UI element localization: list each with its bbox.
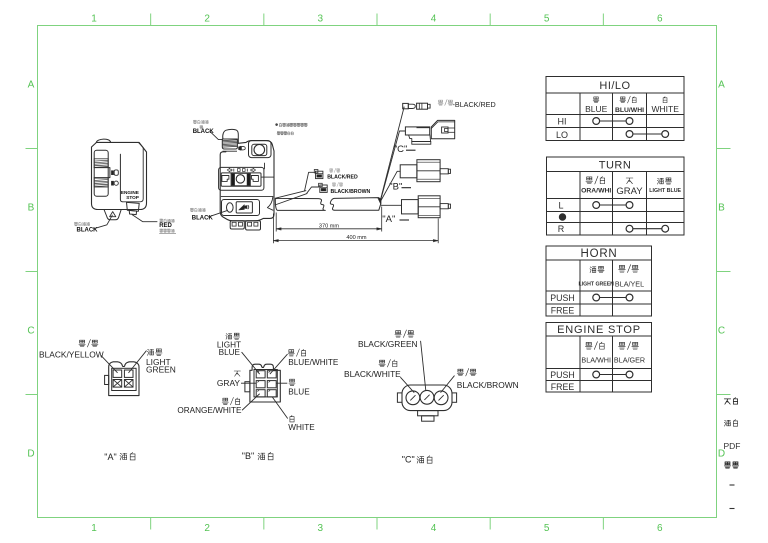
bullet connector BLACK/RED (mid)	[314, 170, 323, 179]
leader to C pin BLACK/GREEN	[421, 341, 426, 390]
label BLACK/BROWN	[457, 368, 519, 390]
detail view A connector housing	[105, 362, 139, 396]
wire to connector C	[381, 131, 406, 200]
svg-text:LIGHT GREEN: LIGHT GREEN	[578, 282, 614, 288]
svg-text:BLACK/WHITE: BLACK/WHITE	[344, 369, 401, 379]
svg-text:6: 6	[657, 523, 663, 534]
svg-text:WHITE: WHITE	[288, 423, 315, 432]
svg-text:4: 4	[431, 523, 437, 534]
label GRAY	[217, 371, 241, 388]
svg-text:TURN: TURN	[599, 160, 632, 172]
label BLACK/GREEN	[358, 330, 418, 349]
svg-text:"C": "C"	[394, 144, 408, 155]
caption detail B	[242, 451, 273, 461]
detail C pin BLACK/BROWN	[434, 391, 448, 405]
detail view C connector housing	[397, 385, 456, 421]
svg-text:PUSH: PUSH	[550, 370, 574, 380]
bullet connector BLACK/BROWN (mid)	[319, 183, 328, 192]
label "A"	[382, 214, 409, 225]
connector B (cylindrical)	[400, 160, 450, 182]
SW2 hi/lo lever with ribbed grip	[222, 129, 238, 151]
SW1 ENGINE STOP label text	[121, 190, 139, 200]
svg-text:HI/LO: HI/LO	[599, 80, 630, 92]
SW2 black wire label (bottom)	[190, 208, 213, 221]
svg-text:R: R	[558, 224, 565, 234]
svg-text:BLUE: BLUE	[288, 387, 310, 396]
detail A pin 2 (LIGHT GREEN)	[124, 370, 133, 377]
leader to B pin WHITE	[272, 397, 287, 418]
SW1 red wire label	[159, 219, 176, 234]
SW1 connector tab (red wire)	[127, 202, 140, 214]
svg-text:3: 3	[318, 523, 324, 534]
svg-text:D: D	[27, 449, 34, 460]
label BLACK/BROWN (mid bullet)	[331, 182, 371, 195]
label LIGHT GREEN	[146, 349, 176, 375]
detail A blocked pin 4	[124, 380, 133, 388]
label BLUE	[288, 379, 310, 396]
svg-text:C: C	[27, 326, 34, 337]
svg-text:BLUE/WHITE: BLUE/WHITE	[288, 358, 339, 367]
svg-text:-BLACK/RED: -BLACK/RED	[453, 100, 496, 109]
svg-text:BLA/WHI: BLA/WHI	[581, 356, 611, 365]
leader line to SW2 top black wire	[210, 131, 223, 139]
SW2 passing button bezel	[249, 141, 272, 158]
SW1 indicator icon 1	[112, 170, 119, 175]
label BLACK/WHITE	[344, 359, 401, 379]
detail B pin (WHITE)	[267, 390, 276, 397]
leader line to SW1 black wire	[94, 215, 113, 229]
detail C pin BLACK/GREEN	[420, 390, 434, 404]
svg-text:5: 5	[544, 523, 550, 534]
wire pair to bullet connectors	[275, 172, 319, 205]
table TURN switch contact chart	[547, 157, 685, 235]
frame zone numbers top	[91, 14, 663, 25]
SW2 horn button panel	[222, 200, 260, 216]
detail C pin BLACK/WHITE	[406, 391, 420, 405]
svg-text:ORANGE/WHITE: ORANGE/WHITE	[177, 406, 242, 415]
label BLACK/RED (mid bullet)	[327, 168, 358, 180]
wire to top bullet connector	[381, 107, 405, 200]
detail B pin (LIGHT BLUE)	[256, 371, 265, 378]
svg-text:"A": "A"	[104, 452, 116, 462]
engraving note text	[276, 123, 308, 135]
SW2 turn signal switch panel	[219, 167, 264, 190]
detail B pin (ORANGE/WHITE)	[256, 390, 265, 397]
svg-text:"B": "B"	[389, 182, 402, 193]
SW1 slider switch with ribbed grip	[94, 150, 110, 196]
detail A pin 1 (BLACK/YELLOW)	[113, 370, 122, 377]
svg-text:B: B	[718, 203, 725, 214]
svg-text:BLU/WHI: BLU/WHI	[615, 107, 644, 114]
label BLUE/WHITE	[288, 349, 339, 367]
svg-text:"B": "B"	[242, 451, 254, 461]
svg-text:PUSH: PUSH	[550, 293, 574, 303]
frame zone numbers bottom	[91, 523, 663, 534]
leader to B pin LIGHT BLUE	[242, 352, 260, 374]
table ENGINE STOP switch contact chart	[546, 323, 652, 393]
dimension 370 mm	[276, 207, 382, 232]
label LIGHT BLUE	[217, 333, 241, 357]
leader to B pin ORANGE/WHITE	[242, 394, 259, 410]
leader to C pin BLACK/BROWN	[441, 376, 455, 393]
svg-text:B: B	[28, 203, 35, 214]
SW2 turn arrows legend	[227, 168, 255, 172]
svg-text:BLA/YEL: BLA/YEL	[615, 280, 644, 289]
svg-text:WHITE: WHITE	[652, 104, 680, 114]
svg-text:A: A	[28, 80, 35, 91]
leader to B pin GRAY	[241, 382, 256, 384]
table HORN switch contact chart	[546, 246, 652, 316]
label "C"	[394, 144, 416, 155]
label "B"	[389, 182, 411, 193]
switch housing SW1 (throttle side, ENGINE STOP) body	[92, 139, 147, 209]
wire to connector B	[381, 171, 401, 201]
svg-text:2: 2	[204, 14, 210, 25]
leader to B pin BLUE/WHITE	[270, 354, 287, 374]
label WHITE	[288, 415, 315, 432]
leader to detail A pin 2	[129, 351, 147, 373]
svg-text:C: C	[718, 326, 725, 337]
svg-text:ORA/WHI: ORA/WHI	[581, 188, 611, 195]
frame zone letters right	[718, 80, 725, 460]
SW2 mounting tabs	[230, 221, 260, 230]
bullet connector BLACK/RED (top)	[403, 103, 430, 109]
svg-text:HI: HI	[558, 117, 567, 127]
connector C (spade terminal pair)	[405, 120, 454, 144]
svg-text:HORN: HORN	[580, 248, 617, 260]
table HI/LO switch contact chart	[546, 77, 684, 141]
SW1 indicator icon 2	[112, 181, 119, 185]
svg-text:BLA/GER: BLA/GER	[614, 356, 645, 365]
detail A blocked pin 3	[113, 380, 122, 388]
leader to C pin BLACK/WHITE	[401, 377, 414, 392]
connector A (cylindrical)	[402, 196, 451, 218]
svg-text:ENGINE: ENGINE	[121, 190, 139, 195]
svg-text:STOP: STOP	[126, 195, 139, 200]
svg-text:BLACK/YELLOW: BLACK/YELLOW	[39, 350, 104, 360]
title block revision column	[724, 398, 741, 509]
svg-text:FREE: FREE	[551, 382, 575, 392]
leader to detail A pin 1	[101, 355, 118, 372]
detail B pin (BLUE/WHITE)	[267, 371, 276, 378]
SW2 headlight icon	[239, 146, 246, 150]
switch housing SW2 (clutch side) body	[220, 141, 274, 221]
caption detail A	[104, 452, 135, 462]
svg-text:2: 2	[204, 523, 210, 534]
SW1 bottom boot with warning triangle	[104, 210, 121, 220]
svg-text:ENGINE STOP: ENGINE STOP	[557, 324, 641, 336]
svg-text:5: 5	[544, 14, 550, 25]
label BLACK/YELLOW	[39, 339, 104, 359]
svg-text:A: A	[718, 80, 725, 91]
svg-text:BLUE: BLUE	[585, 104, 608, 114]
label BLACK/RED (top)	[438, 100, 496, 110]
svg-text:L: L	[558, 201, 563, 211]
svg-text:370 mm: 370 mm	[319, 223, 340, 229]
SW1 black wire label	[74, 222, 98, 233]
leader to B pin BLUE	[276, 382, 287, 384]
svg-text:FREE: FREE	[551, 305, 575, 315]
svg-text:3: 3	[318, 14, 324, 25]
frame zone letters left	[27, 80, 34, 460]
svg-text:LO: LO	[556, 130, 568, 140]
svg-text:1: 1	[91, 14, 97, 25]
SW2 black wire label (top)	[193, 120, 215, 135]
svg-text:LIGHT BLUE: LIGHT BLUE	[649, 188, 681, 194]
svg-text:6: 6	[657, 14, 663, 25]
main harness cable with break symbol	[275, 198, 381, 211]
svg-text:BLACK/BROWN: BLACK/BROWN	[457, 380, 519, 390]
svg-text:GRAY: GRAY	[616, 186, 643, 197]
svg-text:"A": "A"	[382, 214, 395, 225]
svg-text:BLACK/BROWN: BLACK/BROWN	[331, 189, 371, 195]
svg-text:BLACK/RED: BLACK/RED	[327, 175, 358, 181]
detail B pin (BLUE)	[267, 381, 276, 388]
leader line to SW1 red wire	[132, 215, 157, 222]
svg-text:PDF: PDF	[724, 441, 741, 451]
svg-text:400 mm: 400 mm	[346, 235, 367, 241]
svg-text:GREEN: GREEN	[146, 365, 176, 375]
detail view B connector housing	[245, 364, 280, 402]
leader line to SW2 bottom black wire	[208, 210, 227, 217]
detail B pin (GRAY)	[256, 381, 265, 388]
svg-text:1: 1	[91, 523, 97, 534]
svg-text:BLUE: BLUE	[219, 348, 241, 357]
caption detail C	[402, 454, 432, 464]
wire to connector A	[381, 204, 402, 206]
svg-text:"C": "C"	[402, 454, 415, 464]
svg-text:RED: RED	[159, 223, 172, 229]
svg-text:GRAY: GRAY	[217, 378, 241, 388]
svg-text:4: 4	[431, 14, 437, 25]
label ORANGE/WHITE	[177, 397, 242, 415]
svg-text:BLACK/GREEN: BLACK/GREEN	[358, 339, 418, 349]
dimension 400 mm	[273, 214, 438, 244]
